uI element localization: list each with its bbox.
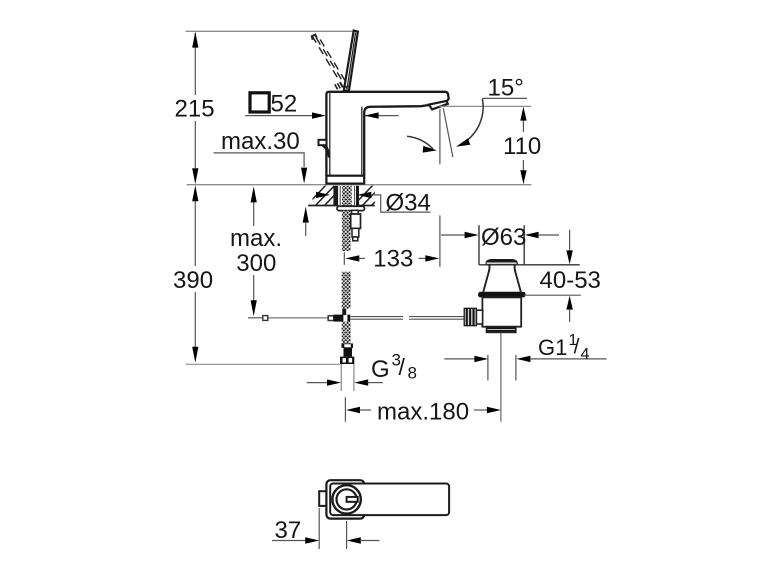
svg-text:390: 390 (173, 267, 213, 294)
lever handle (solid position) (344, 31, 358, 91)
svg-text:/: / (574, 336, 580, 359)
max.300 lower reference tick (248, 317, 266, 319)
lever handle (dashed alternate position) (312, 35, 349, 89)
drain rod connector knurled knob (464, 308, 476, 325)
plan view: square base (326, 480, 364, 518)
faucet base plate (326, 176, 364, 184)
drain bottom nut (487, 327, 516, 333)
dimension 390 vertical line (194, 201, 196, 347)
square-52 leader + left arrow (245, 115, 313, 117)
svg-text:40-53: 40-53 (540, 267, 601, 294)
svg-text:G1: G1 (538, 335, 567, 360)
G3/8 thread tails (340, 364, 342, 391)
countertop hatching left (305, 184, 345, 207)
drain escutcheon cone (483, 265, 489, 292)
svg-text:300: 300 (236, 250, 276, 277)
bottom reference line at hose end (390 lower extension) (186, 363, 341, 365)
braided hose upper segment (342, 211, 351, 251)
plan view: side tab (319, 491, 328, 506)
rod clamp at hose (328, 316, 334, 321)
dimension 37 (318, 508, 320, 549)
hose end fitting (342, 344, 354, 348)
svg-text:max.180: max.180 (377, 398, 469, 425)
countertop line (187, 184, 532, 186)
pull rod right part (double line with break) (350, 317, 464, 320)
15 deg vertical reference line (439, 109, 441, 164)
dimension 390 arrows (192, 185, 198, 201)
dimension 110 (522, 119, 524, 171)
spout underside and body right edge (364, 105, 429, 176)
top reference line (215 upper extension) (186, 30, 356, 32)
mounting stud and nut (352, 210, 359, 214)
dimension 215 arrows (192, 32, 198, 48)
drain flange top line / 40-53 upper reference (479, 264, 580, 266)
drain plug cap (485, 259, 518, 265)
svg-text:133: 133 (373, 246, 413, 273)
plan view: cartridge outer circle (332, 485, 360, 513)
countertop hatching right (352, 184, 392, 207)
drain seal ring (black) (478, 292, 525, 298)
15 deg angle arc right part (461, 99, 483, 145)
faucet body and spout outline (326, 92, 448, 176)
label square-52 (250, 93, 269, 112)
body inner edge lines (329, 93, 331, 175)
square-52 right arrow (365, 115, 399, 117)
drain pull knob on body (319, 140, 327, 145)
svg-text:37: 37 (275, 517, 302, 544)
svg-text:max.: max. (230, 225, 282, 252)
svg-text:52: 52 (271, 91, 298, 118)
mounting washer under countertop (337, 206, 365, 210)
dashed lever tip mark (312, 35, 317, 40)
dimension arrows for hole Ø34 (316, 192, 330, 198)
svg-text:110: 110 (503, 133, 541, 160)
plan view: cartridge inner circle (337, 489, 357, 509)
label Ø34 with leader box (371, 195, 431, 212)
pop-up waste drain: center line (500, 333, 502, 422)
braided hose lower segment (342, 272, 351, 309)
svg-text:215: 215 (175, 96, 215, 123)
drain Ø63 extension walls (478, 225, 480, 265)
svg-text:Ø63: Ø63 (481, 224, 526, 251)
plan view: spout rectangle (330, 484, 449, 516)
svg-text:8: 8 (408, 364, 417, 383)
dimension max.300 vertical line (253, 202, 255, 301)
dimension 40-53 (569, 230, 571, 252)
faucet shank cross-section in hole (333, 186, 338, 205)
dimension max.180 (344, 397, 346, 422)
15 deg reference: spout tip horizontal extension (440, 105, 532, 107)
plan view: cartridge slot (347, 497, 358, 502)
svg-text:15°: 15° (488, 75, 524, 102)
dimension G3/8 arrows (307, 382, 328, 384)
pop-up pull rod left part (248, 317, 329, 319)
braided hose bottom segment (342, 322, 351, 344)
dimension Ø63 (441, 234, 465, 236)
15 deg angle arc left part (407, 136, 433, 149)
svg-text:G: G (371, 356, 390, 383)
svg-text:Ø34: Ø34 (386, 190, 431, 217)
dimension 133 (343, 252, 345, 265)
spout nozzle (aerator, 15 deg) (429, 101, 448, 110)
15 deg tilted stream line (443, 108, 453, 157)
svg-text:4: 4 (581, 346, 590, 363)
dimension 215 vertical line (194, 33, 196, 168)
dimension max.300 arrows (251, 186, 257, 202)
dashed lever foot hatch marks (335, 82, 343, 89)
hose neck at rod clamp (342, 309, 346, 315)
rod end cap (263, 316, 268, 321)
svg-text:/: / (399, 354, 406, 380)
svg-text:max.30: max.30 (221, 128, 300, 155)
G3/8 nut (340, 357, 354, 364)
countertop cut bottom line (308, 205, 375, 207)
drain body (482, 297, 521, 326)
dimension G1 1/4 (444, 358, 475, 360)
